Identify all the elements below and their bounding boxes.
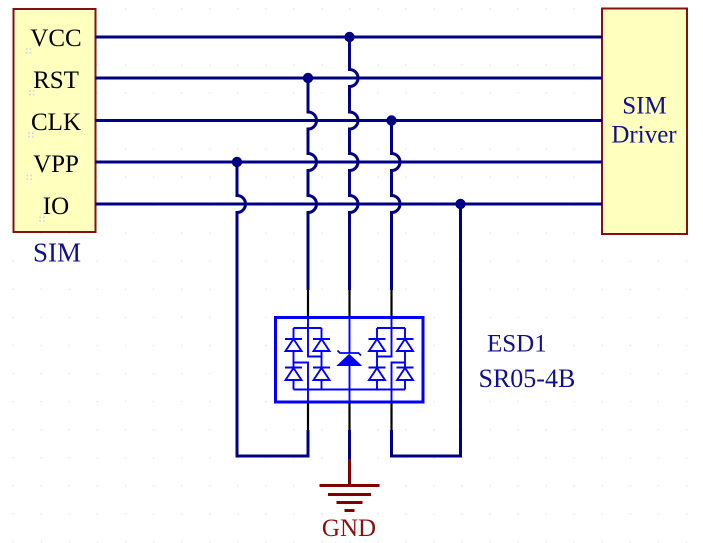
text origin markers (pale dots) [26,48,45,222]
ESD1 pin 5 bottom (black stub) [348,402,350,430]
wire VPP vertical drop with hop [237,162,308,456]
wire GND center [348,430,351,459]
wire IO vertical drop [392,204,461,456]
svg-text:CLK: CLK [31,109,81,136]
diode D5 (right-inner top) [369,328,386,368]
diode D8 (right-outer bottom) [397,368,414,390]
ESD1 pin 1 top (black stub) [307,290,309,318]
pin3 internal [377,318,392,357]
svg-text:SR05-4B: SR05-4B [479,364,576,393]
wire RST horizontal [96,77,603,80]
svg-text:Driver: Driver [611,122,677,149]
diode D1 (left-outer top) [285,328,302,368]
svg-text:IO: IO [43,193,69,220]
ESD1 pin 6 bottom (black stub) [390,402,392,430]
svg-text:GND: GND [322,515,376,542]
ESD internal rails [294,318,406,403]
pin2 internal [349,318,351,354]
junction dot IO [455,199,465,209]
wire VCC vertical drop with hops [350,37,359,290]
svg-text:VPP: VPP [33,151,79,178]
wire RST vertical drop with hops [308,78,317,290]
svg-text:SIM: SIM [622,93,666,120]
diode D4 (left-inner bottom) [313,368,330,390]
svg-text:VCC: VCC [30,25,81,52]
sheet symbol SIM (connector) [14,9,96,232]
wire VCC horizontal [96,36,603,39]
TVS diode (center, filled) [338,351,362,366]
ground symbol [320,459,380,511]
diode D7 (right-outer top) [397,328,414,368]
ESD1 body [276,318,424,403]
wire VPP horizontal [96,161,603,164]
ESD1 pin 2 top (black stub) [348,290,350,318]
sheet symbol SIM Driver [602,9,687,235]
svg-text:SIM: SIM [33,238,81,268]
ESD1 pin 4 bottom (black stub) [307,402,309,430]
diode D3 (left-inner top) [313,328,330,368]
svg-text:ESD1: ESD1 [487,330,547,357]
junction dot CLK [386,115,396,125]
svg-text:RST: RST [33,67,79,94]
pin1 internal [308,318,322,357]
wire CLK horizontal [96,119,603,122]
wire CLK vertical drop with hops [392,121,401,291]
ESD1 pin 3 top (black stub) [390,290,392,318]
junction dot VCC [344,32,354,42]
junction dot VPP [232,157,242,167]
junction dot RST [303,73,313,83]
diode D6 (right-inner bottom) [369,368,386,390]
diode D2 (left-outer bottom) [285,368,302,390]
wire IO horizontal [96,203,603,206]
